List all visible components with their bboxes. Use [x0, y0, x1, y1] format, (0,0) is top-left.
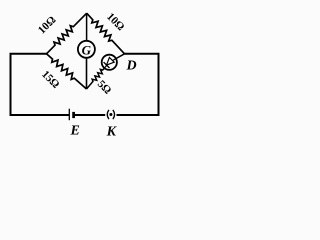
- svg-text:K: K: [106, 125, 118, 140]
- svg-text:G: G: [82, 43, 92, 58]
- svg-text:E: E: [70, 124, 80, 139]
- svg-text:D: D: [125, 59, 136, 74]
